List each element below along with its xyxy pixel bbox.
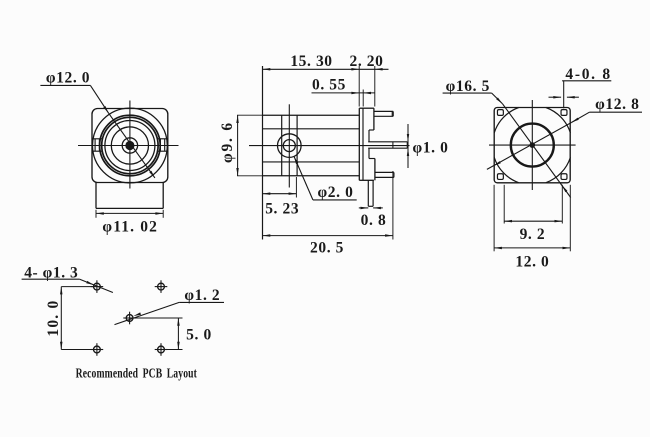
svg-text:φ2. 0: φ2. 0 [318, 184, 354, 201]
svg-text:20. 5: 20. 5 [310, 240, 344, 257]
svg-text:9. 2: 9. 2 [520, 226, 546, 243]
svg-text:10. 0: 10. 0 [45, 300, 62, 337]
svg-text:φ12. 0: φ12. 0 [46, 69, 90, 86]
svg-text:φ9. 6: φ9. 6 [219, 121, 236, 163]
svg-text:φ1. 0: φ1. 0 [413, 140, 449, 157]
svg-text:0. 8: 0. 8 [361, 212, 387, 229]
svg-text:5. 0: 5. 0 [186, 327, 212, 344]
svg-text:0. 55: 0. 55 [312, 76, 346, 93]
svg-text:φ16. 5: φ16. 5 [446, 78, 490, 95]
svg-text:φ12. 8: φ12. 8 [595, 96, 639, 113]
svg-text:φ1. 2: φ1. 2 [184, 287, 220, 304]
svg-text:Recommended PCB Layout: Recommended PCB Layout [76, 366, 197, 381]
svg-text:15. 30: 15. 30 [290, 53, 332, 70]
svg-text:5. 23: 5. 23 [265, 201, 299, 218]
svg-text:2. 20: 2. 20 [350, 53, 384, 70]
svg-text:12. 0: 12. 0 [515, 253, 549, 270]
svg-text:φ11. 02: φ11. 02 [102, 219, 158, 236]
